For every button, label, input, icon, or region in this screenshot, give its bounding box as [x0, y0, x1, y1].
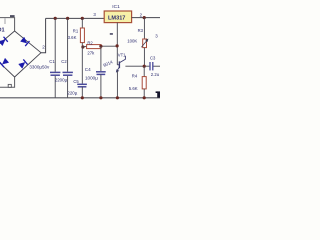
diode VD4 lower-right	[18, 59, 27, 68]
diode VD3 lower-left	[0, 58, 9, 67]
svg-text:R3: R3	[138, 28, 144, 33]
node junction C5 bottom	[81, 96, 84, 99]
svg-text:C1: C1	[49, 59, 55, 64]
wire top rail	[46, 17, 105, 19]
svg-text:100K: 100K	[127, 38, 137, 43]
node junction output/R3	[143, 16, 146, 19]
svg-text:3300µ50v: 3300µ50v	[29, 65, 50, 70]
wire C2 leads	[67, 18, 69, 71]
svg-text:R1: R1	[73, 28, 79, 33]
capacitor C4 1000u	[100, 46, 102, 71]
node junction C1 top	[54, 17, 57, 20]
node junction R1/R2	[81, 45, 84, 48]
resistor R2	[83, 46, 87, 48]
node junction C4 top	[99, 45, 102, 48]
capacitor C3 2.2u series	[150, 62, 153, 70]
capacitor C2	[63, 72, 73, 75]
wire bridge output to top rail	[41, 18, 46, 52]
svg-text:C3: C3	[150, 56, 156, 61]
wire ADJ pin down	[116, 23, 118, 65]
resistor R1	[81, 18, 83, 28]
node junction VT1 emitter bottom	[116, 96, 119, 99]
node junction R1 top	[81, 17, 84, 20]
node notch on bottom-left wire	[8, 84, 11, 87]
node junction ADJ/R2	[116, 44, 119, 47]
svg-text:27k: 27k	[87, 51, 95, 56]
svg-text:2: 2	[42, 45, 45, 50]
svg-text:3.6K: 3.6K	[68, 35, 77, 40]
wire emitter down	[116, 70, 118, 97]
svg-text:IC1: IC1	[112, 4, 120, 10]
svg-text:C5: C5	[73, 79, 79, 84]
wire C1 leads	[54, 18, 56, 71]
resistor R4	[143, 66, 145, 76]
svg-text:2.2u: 2.2u	[151, 72, 160, 77]
node junction C4 bottom	[99, 96, 102, 99]
node pin label 1	[110, 33, 113, 35]
svg-text:R2: R2	[87, 41, 93, 46]
IC U1 LM317 box	[104, 11, 131, 23]
wire R3 top lead	[143, 18, 145, 39]
svg-text:C4: C4	[85, 67, 91, 72]
svg-text:LM317: LM317	[108, 15, 125, 21]
wire ground rail	[0, 97, 160, 99]
svg-text:5.6K: 5.6K	[129, 86, 138, 91]
wire feedback line y66	[125, 65, 149, 67]
node junction R4 bottom	[143, 96, 146, 99]
node junction R4 top	[143, 65, 146, 68]
svg-text:2200µ: 2200µ	[55, 78, 68, 83]
diode VD2 upper-right	[20, 37, 29, 46]
svg-text:C2: C2	[61, 59, 67, 64]
capacitor C1	[50, 72, 60, 75]
capacitor C5 220u from R1/R2 node	[81, 47, 83, 84]
wire IC right output	[132, 17, 160, 19]
node tick top-left dash	[10, 15, 15, 17]
svg-text:R4: R4	[132, 74, 138, 79]
wire transformer top lead	[0, 18, 15, 31]
svg-text:D1: D1	[0, 28, 5, 34]
svg-text:VT1: VT1	[118, 53, 126, 58]
svg-text:220µ: 220µ	[67, 90, 77, 95]
diode VD1 upper-left	[0, 37, 8, 46]
node junction C2 top	[66, 17, 69, 20]
wire bridge diamond edges	[0, 31, 41, 77]
node caption glyph bottom-right	[156, 91, 160, 97]
wire bridge bottom return	[0, 77, 15, 87]
wire small tick left	[4, 18, 6, 24]
svg-text:1000µ: 1000µ	[85, 76, 98, 81]
resistor R3 potentiometer	[143, 39, 147, 48]
